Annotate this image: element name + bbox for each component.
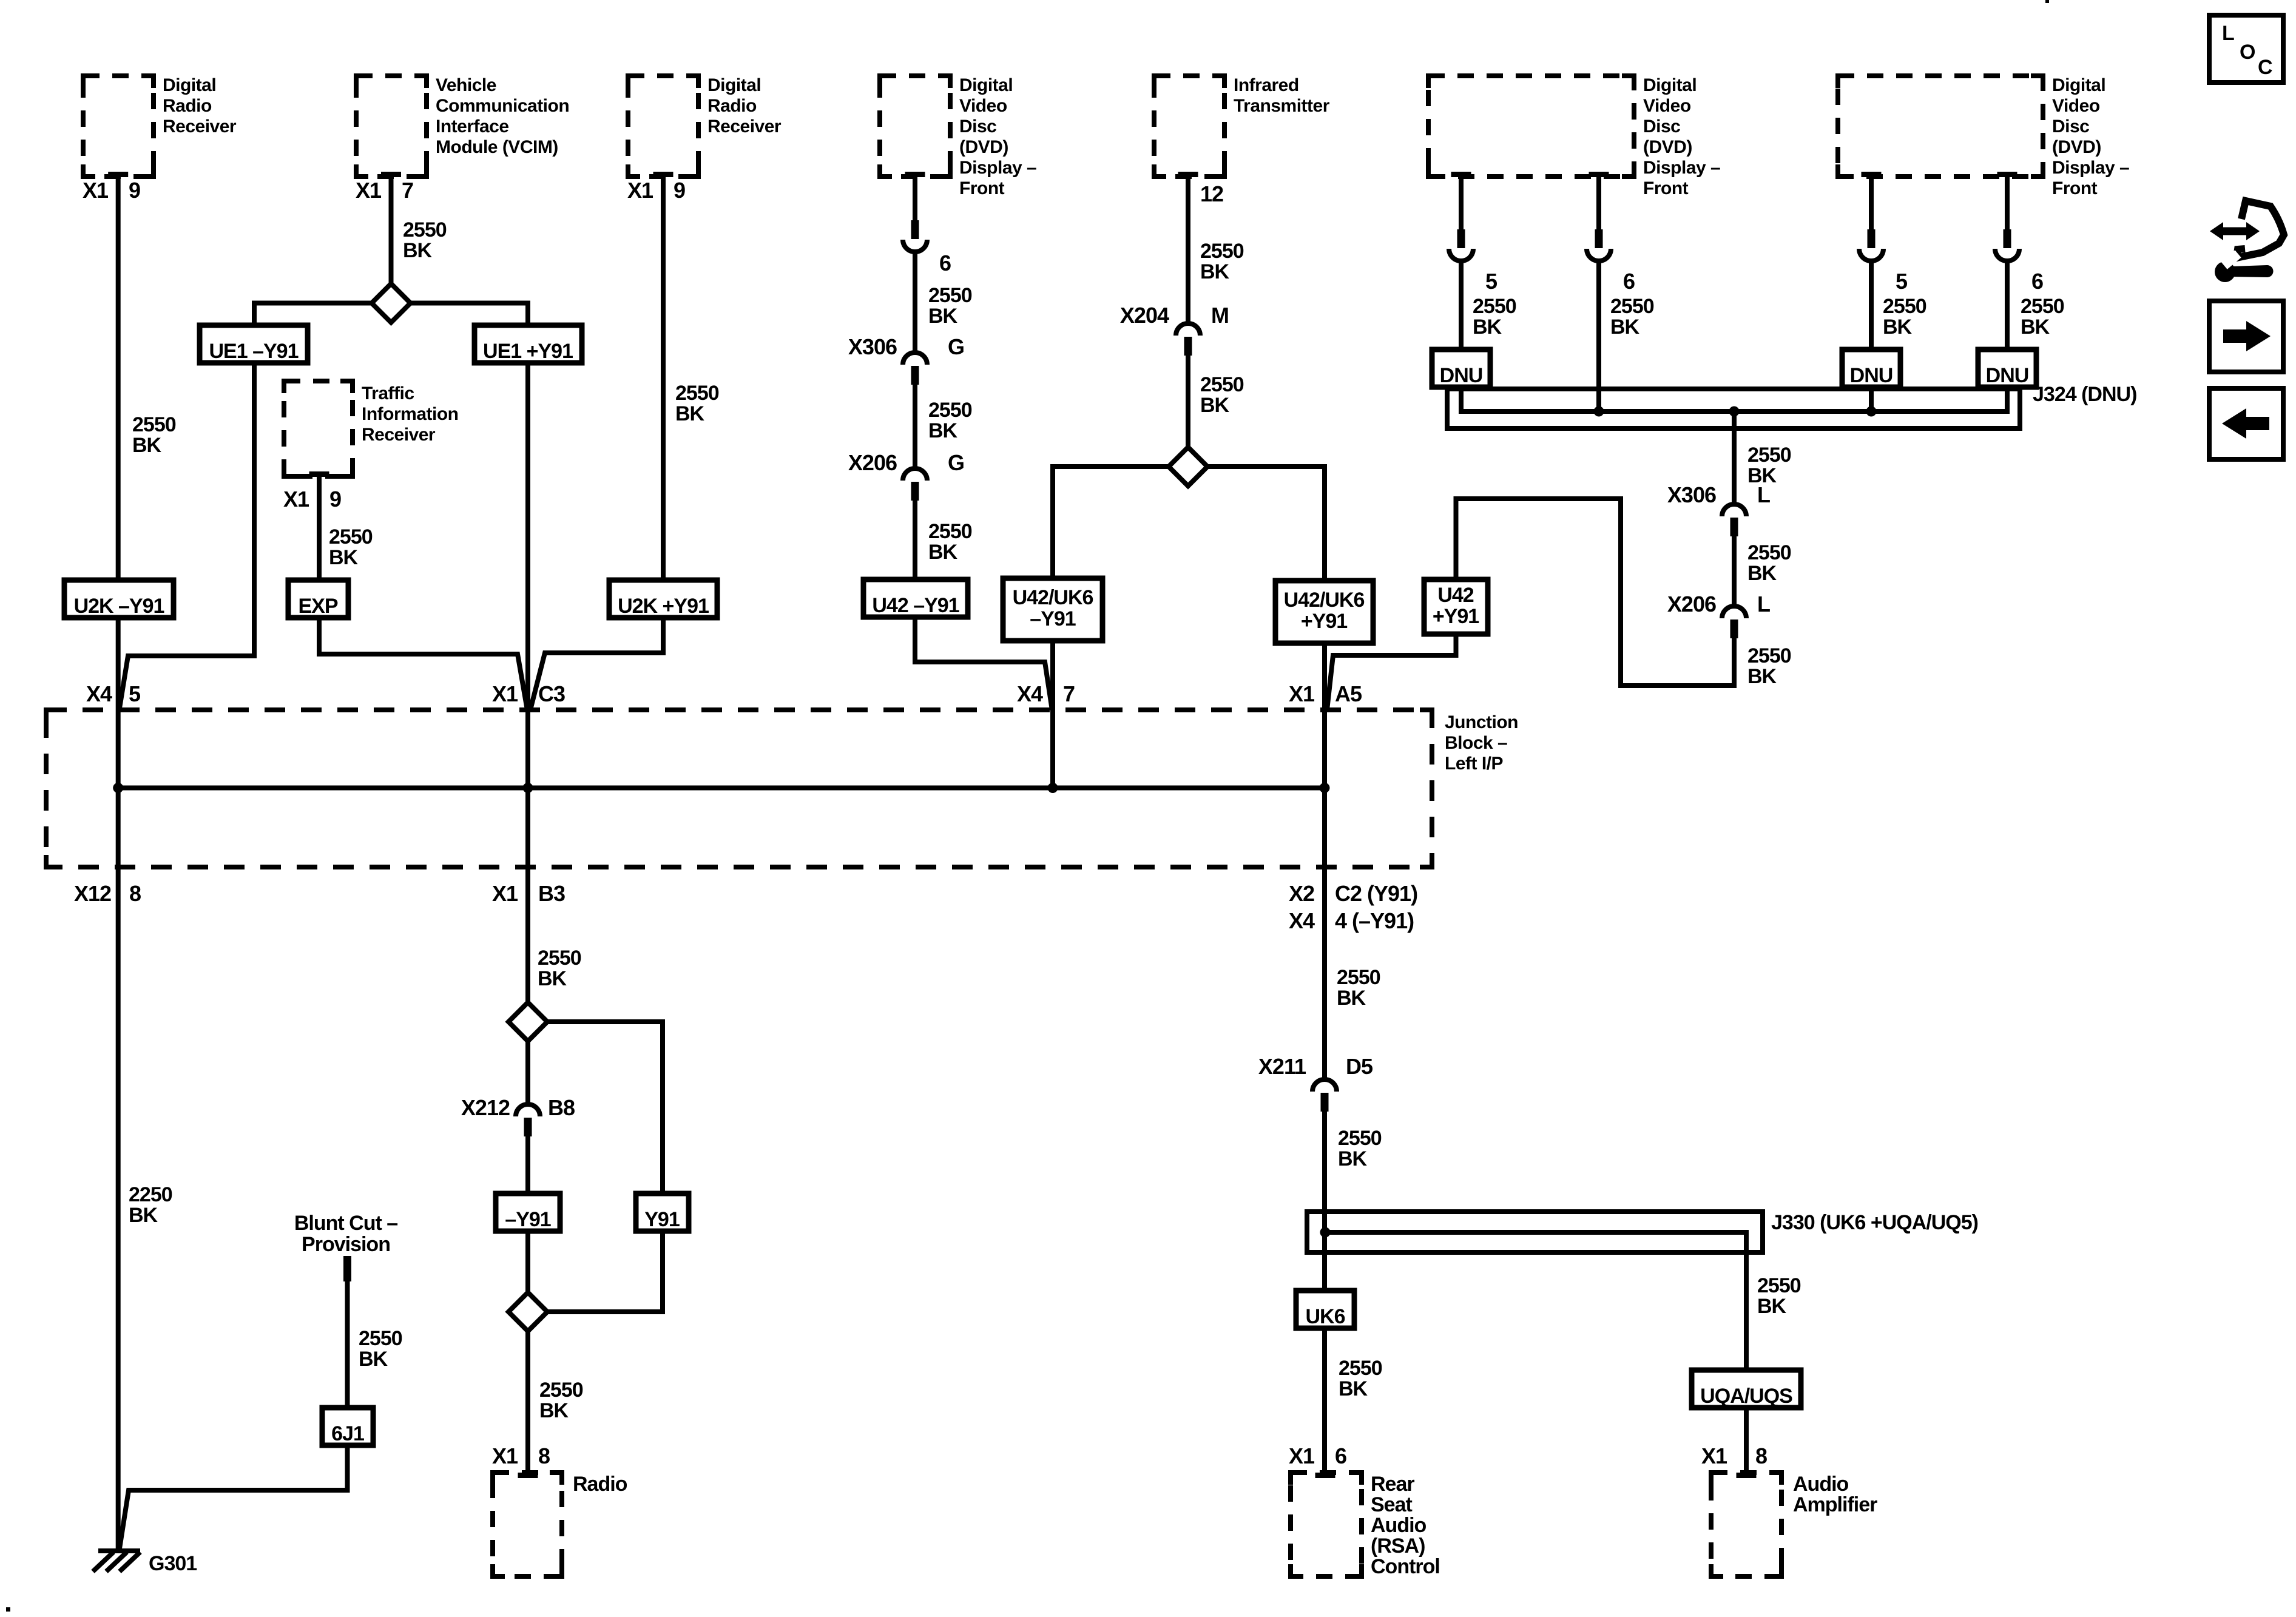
svg-text:Receiver: Receiver	[163, 116, 237, 137]
svg-text:BK: BK	[359, 1348, 388, 1371]
wire: VCIM X1-7 down to splice diamond	[389, 177, 394, 284]
svg-text:Radio: Radio	[573, 1473, 627, 1496]
svg-text:5: 5	[129, 681, 141, 706]
pin label X1 9 DRR left	[83, 178, 140, 203]
option box UQA/UQS	[1692, 1370, 1801, 1408]
svg-text:Disc: Disc	[959, 116, 996, 137]
label 2550 BK wire DVD wide 6	[1610, 295, 1654, 339]
svg-text:Digital: Digital	[1643, 75, 1697, 95]
svg-text:2550: 2550	[1338, 1127, 1382, 1150]
label 2550 BK wire blunt cut	[359, 1327, 402, 1371]
icon harness routing with wrench	[2210, 201, 2284, 282]
option box Y91	[636, 1193, 689, 1231]
label 2550 BK wire DVD1 lower	[928, 520, 972, 564]
svg-text:2550: 2550	[1757, 1274, 1801, 1297]
connector X212 B8 (dome)	[461, 1095, 575, 1136]
svg-text:8: 8	[1755, 1443, 1767, 1468]
svg-text:+Y91: +Y91	[1433, 605, 1479, 628]
splice diamond on radio branch lower	[508, 1292, 547, 1331]
connector pin 6 DVD right (cup)	[1995, 229, 2043, 294]
wire: DVD wide display pin 5 down through DNU to J324	[1459, 177, 1464, 411]
junction pin label X1 B3	[492, 881, 565, 906]
label 2550 BK wire DVD1 upper	[928, 284, 972, 328]
svg-text:4 (–Y91): 4 (–Y91)	[1335, 908, 1414, 933]
label 2550 BK wire A5 branch	[1337, 966, 1380, 1010]
svg-text:(DVD): (DVD)	[2052, 137, 2101, 157]
svg-text:X306: X306	[848, 334, 897, 359]
svg-text:2550: 2550	[1747, 644, 1791, 667]
svg-text:Communication: Communication	[436, 96, 569, 116]
svg-text:X1: X1	[356, 178, 382, 203]
svg-text:EXP: EXP	[298, 595, 337, 618]
component Radio (dashed box)	[493, 1473, 627, 1576]
svg-text:BK: BK	[1747, 464, 1777, 487]
svg-text:X1: X1	[1289, 681, 1315, 706]
connector X204 M (dome)	[1120, 303, 1229, 356]
label 2550 BK wire below lower splice	[539, 1379, 583, 1422]
svg-text:C3: C3	[538, 681, 565, 706]
svg-text:BK: BK	[1757, 1295, 1787, 1318]
svg-text:2550: 2550	[1200, 373, 1244, 396]
svg-text:Control: Control	[1371, 1555, 1440, 1578]
svg-text:2550: 2550	[1747, 541, 1791, 564]
svg-text:Display –: Display –	[2052, 158, 2129, 178]
svg-text:BK: BK	[1339, 1377, 1368, 1400]
svg-text:X1: X1	[283, 487, 309, 511]
svg-text:6: 6	[939, 251, 951, 275]
svg-text:L: L	[2222, 22, 2234, 45]
wire: DVD Display Front wire 6 chain down through U42 -Y91, right, funnel into X4-7	[915, 177, 1052, 710]
svg-text:X12: X12	[74, 881, 111, 906]
pin label X1 9 Traffic Information Receiver	[283, 487, 341, 511]
svg-text:5: 5	[1896, 269, 1908, 294]
svg-text:Video: Video	[2052, 96, 2100, 116]
svg-text:2550: 2550	[1200, 240, 1244, 263]
svg-text:U42/UK6: U42/UK6	[1013, 586, 1093, 609]
junction dot bus at X4-5 wire	[113, 783, 123, 793]
svg-text:DNU: DNU	[1440, 364, 1483, 387]
svg-text:BK: BK	[403, 239, 433, 262]
svg-text:2550: 2550	[1473, 295, 1516, 318]
label 2550 BK wire DVD1 middle	[928, 399, 972, 442]
label 2550 BK wire TIR-EXP	[329, 525, 373, 569]
svg-text:Digital: Digital	[2052, 75, 2105, 95]
wire: U42 +Y91 bottom funnel into X1-A5	[1327, 634, 1456, 710]
svg-text:L: L	[1757, 592, 1770, 616]
component Audio Amplifier (dashed box)	[1711, 1473, 1877, 1576]
svg-text:X204: X204	[1120, 303, 1169, 328]
wire: IR splice right branch to U42/UK6 +Y91, junction X1-A5, X211 D5, J330, UK6, RSA control	[1207, 467, 1325, 1473]
svg-text:(RSA): (RSA)	[1371, 1534, 1425, 1558]
junction dot J324 at DVD wide pin 6 wire	[1594, 407, 1604, 417]
svg-text:–Y91: –Y91	[505, 1208, 550, 1231]
svg-text:Radio: Radio	[707, 96, 757, 116]
svg-text:2550: 2550	[1747, 444, 1791, 467]
svg-text:2550: 2550	[1339, 1357, 1382, 1380]
option box EXP	[288, 580, 348, 618]
svg-text:DNU: DNU	[1986, 364, 2029, 387]
svg-text:BK: BK	[928, 541, 958, 564]
wire: Digital Radio Receiver left X1-9 down through junction block to ground G301	[116, 177, 121, 1551]
svg-text:X4: X4	[86, 681, 112, 706]
svg-text:Receiver: Receiver	[362, 425, 436, 445]
connector X206 G (dome)	[848, 450, 964, 501]
svg-text:6: 6	[2031, 269, 2043, 294]
pin label X1 9 DRR right	[627, 178, 685, 203]
svg-text:X206: X206	[848, 450, 897, 475]
option box U42 +Y91	[1424, 579, 1488, 634]
junction pin label X1 C3	[492, 681, 565, 706]
svg-text:Audio: Audio	[1371, 1514, 1427, 1537]
icon LOC box	[2209, 15, 2283, 83]
splice diamond below Infrared Transmitter X204	[1169, 447, 1207, 486]
svg-text:9: 9	[674, 178, 685, 203]
svg-text:BK: BK	[1473, 316, 1502, 339]
bus J324 DNU rectangle	[1447, 383, 2136, 428]
svg-text:BK: BK	[329, 546, 359, 569]
ground G301	[93, 1551, 197, 1575]
option box UK6	[1296, 1291, 1354, 1328]
svg-text:Seat: Seat	[1371, 1493, 1412, 1516]
component Traffic Information Receiver (dashed box)	[284, 381, 459, 477]
svg-text:BK: BK	[1338, 1147, 1368, 1170]
icon back arrow box	[2209, 388, 2283, 459]
option box U42/UK6 -Y91	[1003, 578, 1102, 641]
svg-text:UQA/UQS: UQA/UQS	[1700, 1385, 1792, 1408]
svg-text:Provision: Provision	[302, 1233, 390, 1256]
svg-text:Video: Video	[1643, 96, 1691, 116]
svg-text:6: 6	[1335, 1443, 1346, 1468]
wire: DVD wide display pin 6 down to J324	[1596, 177, 1601, 411]
svg-text:D5: D5	[1346, 1054, 1373, 1079]
svg-text:Traffic: Traffic	[362, 383, 414, 403]
svg-text:Junction: Junction	[1445, 712, 1518, 732]
svg-text:2250: 2250	[129, 1183, 172, 1206]
splice diamond on radio branch upper	[508, 1002, 547, 1041]
svg-text:Transmitter: Transmitter	[1234, 96, 1330, 116]
component Digital Video Disc DVD Display Front 1 (dashed box)	[880, 75, 1036, 198]
svg-text:UE1 –Y91: UE1 –Y91	[209, 340, 299, 363]
svg-text:7: 7	[402, 178, 413, 203]
svg-text:2550: 2550	[132, 413, 176, 436]
svg-text:C: C	[2258, 56, 2272, 79]
svg-text:Display –: Display –	[1643, 158, 1720, 178]
svg-text:U42: U42	[1437, 584, 1473, 607]
option box DNU left	[1432, 349, 1490, 387]
svg-text:UE1 +Y91: UE1 +Y91	[483, 340, 573, 363]
wire: IR splice left branch to U42/UK6 -Y91 and junction X4-7 to bus	[1053, 467, 1169, 788]
svg-text:BK: BK	[1747, 562, 1777, 585]
svg-text:Amplifier: Amplifier	[1793, 1493, 1877, 1516]
icon forward arrow box	[2209, 301, 2283, 372]
svg-text:2550: 2550	[329, 525, 373, 549]
wire: blunt cut provision through 6J1 to ground	[120, 1281, 348, 1548]
svg-text:9: 9	[129, 178, 140, 203]
wire: radio branch splice to Y91 loop	[547, 1022, 663, 1312]
svg-text:X2: X2	[1289, 881, 1314, 906]
label 2550 BK wire IR lower	[1200, 373, 1244, 417]
svg-text:Digital: Digital	[959, 75, 1013, 95]
svg-text:8: 8	[538, 1443, 550, 1468]
svg-text:G: G	[948, 450, 964, 475]
svg-text:BK: BK	[2021, 316, 2050, 339]
label 2550 BK wire below X206L	[1747, 644, 1791, 688]
svg-text:Y91: Y91	[644, 1208, 680, 1231]
option box UE1 -Y91	[200, 325, 308, 363]
svg-text:9: 9	[329, 487, 341, 511]
wire: U42 +Y91 top route to X206 L chain	[1456, 499, 1735, 686]
wire: Traffic Information Receiver X1-9 down through EXP, right, funnel into X1-C3	[319, 476, 527, 710]
svg-text:2550: 2550	[1883, 295, 1926, 318]
svg-text:BK: BK	[132, 434, 162, 457]
svg-text:+Y91: +Y91	[1301, 610, 1347, 633]
svg-text:J324 (DNU): J324 (DNU)	[2033, 383, 2136, 406]
svg-text:X1: X1	[492, 881, 518, 906]
svg-text:Block –: Block –	[1445, 733, 1507, 753]
svg-text:Vehicle: Vehicle	[436, 75, 496, 95]
connector pin 6 DVD wide (cup)	[1587, 229, 1635, 294]
label 2550 BK wire X211-J330	[1338, 1127, 1382, 1170]
svg-text:Video: Video	[959, 96, 1007, 116]
junction pin label X4 5	[86, 681, 141, 706]
wire: DVD right display pin 6 down through DNU to J324	[2005, 177, 2010, 411]
option box UE1 +Y91	[474, 325, 582, 363]
svg-text:G: G	[948, 334, 964, 359]
svg-text:X1: X1	[1289, 1443, 1315, 1468]
component Digital Video Disc DVD Display Front wide (dashed box)	[1428, 75, 1720, 198]
svg-text:BK: BK	[539, 1399, 569, 1422]
pin label X1 8 Radio	[492, 1443, 550, 1468]
svg-text:C2 (Y91): C2 (Y91)	[1335, 881, 1417, 906]
component Digital Video Disc DVD Display Front right (dashed box)	[1838, 75, 2129, 198]
svg-text:Audio: Audio	[1793, 1473, 1849, 1496]
svg-text:2550: 2550	[928, 399, 972, 422]
label 2550 BK wire J324 tap	[1747, 444, 1791, 487]
svg-text:X212: X212	[461, 1095, 510, 1120]
svg-text:Front: Front	[959, 178, 1005, 198]
label 2550 BK wire X306L-X206L	[1747, 541, 1791, 585]
svg-text:Rear: Rear	[1371, 1473, 1414, 1496]
svg-text:X1: X1	[492, 1443, 518, 1468]
svg-text:X4: X4	[1289, 908, 1315, 933]
svg-text:8: 8	[129, 881, 141, 906]
svg-text:X211: X211	[1258, 1054, 1306, 1079]
svg-text:BK: BK	[675, 402, 705, 425]
svg-text:Receiver: Receiver	[707, 116, 782, 137]
component Infrared Transmitter (dashed box)	[1154, 75, 1330, 177]
svg-text:–Y91: –Y91	[1030, 607, 1075, 630]
svg-text:BK: BK	[928, 419, 958, 442]
pin label X1 7 VCIM	[356, 178, 413, 203]
svg-text:BK: BK	[1747, 665, 1777, 688]
svg-text:BK: BK	[1337, 987, 1366, 1010]
svg-text:12: 12	[1200, 181, 1223, 206]
wire: splice right branch to UE1 +Y91 then down to junction X1-C3 and through to Radio branch	[411, 303, 528, 1473]
pin label X1 8 Audio Amplifier	[1701, 1443, 1767, 1468]
connector pin 5 DVD right (cup)	[1859, 229, 1908, 294]
svg-text:B3: B3	[538, 881, 565, 906]
svg-text:U2K +Y91: U2K +Y91	[618, 595, 709, 618]
label 2550 BK wire DRR right	[675, 382, 719, 425]
svg-text:Radio: Radio	[163, 96, 212, 116]
svg-text:(DVD): (DVD)	[1643, 137, 1692, 157]
pin label 12 Infrared Transmitter	[1200, 181, 1223, 206]
svg-text:X206: X206	[1667, 592, 1716, 616]
wire: J324 internal bus line	[1461, 387, 2007, 411]
svg-text:2550: 2550	[538, 947, 581, 970]
wire: splice left branch to UE1 -Y91 then down, left, funnel into junction X4-5	[120, 303, 372, 711]
blunt cut terminal pin	[343, 1256, 351, 1281]
label 2550 BK wire DRR left	[132, 413, 176, 457]
svg-text:BK: BK	[1200, 260, 1230, 283]
svg-text:2550: 2550	[675, 382, 719, 405]
junction dot J330 at UK6 wire	[1320, 1227, 1331, 1238]
svg-text:2550: 2550	[359, 1327, 402, 1350]
svg-text:Information: Information	[362, 404, 459, 424]
svg-text:Left I/P: Left I/P	[1445, 754, 1503, 774]
connector X306 L (dome)	[1667, 482, 1770, 536]
svg-text:5: 5	[1485, 269, 1497, 294]
junction dot bus at X1-A5 wire	[1320, 783, 1330, 793]
label 2550 BK wire DVD right 5	[1883, 295, 1926, 339]
component Digital Radio Receiver left (dashed box)	[83, 75, 237, 177]
svg-text:BK: BK	[1883, 316, 1913, 339]
svg-text:M: M	[1211, 303, 1229, 328]
svg-text:2550: 2550	[403, 218, 447, 241]
svg-text:Front: Front	[2052, 178, 2098, 198]
label 2550 BK wire X1-B3 branch	[538, 947, 581, 990]
label 2550 BK wire DVD wide 5	[1473, 295, 1516, 339]
svg-text:BK: BK	[129, 1204, 158, 1227]
connector X211 D5 (dome)	[1258, 1054, 1373, 1112]
junction pin label X12 8	[74, 881, 141, 906]
svg-text:X1: X1	[1701, 1443, 1727, 1468]
svg-text:BK: BK	[1200, 394, 1230, 417]
svg-text:Interface: Interface	[436, 116, 509, 137]
wire: junction block internal bus	[118, 786, 1325, 791]
svg-text:G301: G301	[149, 1552, 197, 1575]
bus J330 UK6+UQA/UQ5 rectangle	[1307, 1211, 1978, 1252]
svg-text:U42/UK6: U42/UK6	[1284, 589, 1365, 612]
connector pin 6 below DVD display 1 (cup)	[903, 220, 951, 275]
label 2550 BK wire UQA/UQS	[1757, 1274, 1801, 1318]
svg-text:2550: 2550	[928, 520, 972, 543]
splice diamond below VCIM	[372, 284, 411, 323]
label 2550 BK wire IR upper	[1200, 240, 1244, 283]
junction dot bus at X1-C3 wire	[523, 783, 533, 793]
svg-text:X4: X4	[1017, 681, 1043, 706]
svg-text:X1: X1	[627, 178, 653, 203]
junction pin label X4 7	[1017, 681, 1075, 706]
svg-text:Disc: Disc	[2052, 116, 2089, 137]
component Digital Radio Receiver right (dashed box)	[628, 75, 782, 177]
svg-text:A5: A5	[1335, 681, 1362, 706]
connector pin 5 DVD wide (cup)	[1449, 229, 1497, 294]
svg-text:2550: 2550	[539, 1379, 583, 1402]
option box U2K -Y91	[64, 580, 174, 618]
wire: Digital Radio Receiver right X1-9 down through U2K +Y91, left, funnel into X1-C3	[530, 177, 663, 710]
component Junction Block Left I/P (dashed box)	[46, 710, 1518, 867]
svg-text:BK: BK	[538, 967, 567, 990]
junction pin label X1 A5	[1289, 681, 1362, 706]
svg-text:Blunt Cut –: Blunt Cut –	[294, 1212, 397, 1235]
wire: DVD right display pin 5 down through DNU to J324	[1869, 177, 1874, 411]
svg-text:Digital: Digital	[163, 75, 216, 95]
svg-text:B8: B8	[548, 1095, 575, 1120]
svg-text:Front: Front	[1643, 178, 1689, 198]
junction dot bus at X4-7 wire	[1048, 783, 1058, 793]
svg-text:UK6: UK6	[1305, 1305, 1345, 1328]
svg-text:2550: 2550	[2021, 295, 2064, 318]
svg-text:BK: BK	[1610, 316, 1640, 339]
option box U42/UK6 +Y91	[1275, 581, 1373, 643]
svg-text:U42 –Y91: U42 –Y91	[872, 594, 959, 617]
svg-text:Disc: Disc	[1643, 116, 1680, 137]
component Vehicle Communication Interface Module VCIM (dashed box)	[356, 75, 569, 177]
option box DNU right 2	[1978, 349, 2036, 387]
svg-text:O: O	[2240, 41, 2255, 64]
svg-text:X306: X306	[1667, 482, 1716, 507]
option box U2K +Y91	[609, 580, 717, 618]
option box DNU right 1	[1842, 349, 1900, 387]
svg-text:X1: X1	[83, 178, 109, 203]
svg-text:X1: X1	[492, 681, 518, 706]
svg-text:2550: 2550	[928, 284, 972, 307]
svg-text:2550: 2550	[1610, 295, 1654, 318]
svg-text:6J1: 6J1	[331, 1422, 364, 1445]
connector X306 G (dome)	[848, 334, 964, 385]
svg-text:Infrared: Infrared	[1234, 75, 1299, 95]
junction pin label X2 C2 Y91 X4 4 -Y91	[1289, 881, 1417, 933]
svg-text:Module (VCIM): Module (VCIM)	[436, 137, 558, 157]
label Blunt Cut Provision	[294, 1212, 397, 1256]
svg-text:J330 (UK6 +UQA/UQ5): J330 (UK6 +UQA/UQ5)	[1771, 1211, 1978, 1234]
svg-text:(DVD): (DVD)	[959, 137, 1008, 157]
junction dot J324 at DVD right DNU wire	[1866, 407, 1877, 417]
junction dot J324 at tap to X306 L	[1729, 407, 1740, 417]
svg-text:U2K –Y91: U2K –Y91	[74, 595, 164, 618]
wire: Infrared Transmitter pin 12 down to X204 and splice diamond	[1186, 177, 1190, 447]
label 2250 BK wire ground branch	[129, 1183, 172, 1227]
svg-text:7: 7	[1063, 681, 1075, 706]
wire: J324 tap down through X306 L and X206 L	[1732, 411, 1737, 606]
label 2550 BK wire VCIM	[403, 218, 447, 262]
svg-text:6: 6	[1623, 269, 1635, 294]
svg-text:Display –: Display –	[959, 158, 1036, 178]
option box 6J1	[322, 1408, 373, 1445]
svg-text:Digital: Digital	[707, 75, 761, 95]
svg-text:DNU: DNU	[1850, 364, 1893, 387]
svg-text:2550: 2550	[1337, 966, 1380, 989]
label 2550 BK wire DVD right 6	[2021, 295, 2064, 339]
wire: J330 internal bus line to UQA/UQS and Audio Amplifier	[1325, 1232, 1746, 1473]
component Rear Seat Audio RSA Control (dashed box)	[1291, 1473, 1440, 1578]
label 2550 BK wire below UK6	[1339, 1357, 1382, 1400]
connector X206 L (dome)	[1667, 592, 1770, 638]
svg-text:BK: BK	[928, 305, 958, 328]
option box -Y91	[496, 1193, 560, 1231]
option box U42 -Y91	[863, 579, 968, 617]
pin label X1 6 RSA	[1289, 1443, 1346, 1468]
